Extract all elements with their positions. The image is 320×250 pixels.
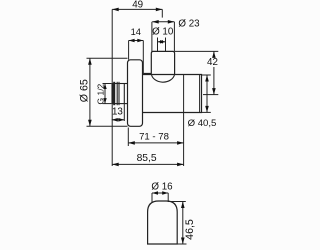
wire dim 13 line xyxy=(112,104,125,122)
svg-text:42: 42 xyxy=(207,57,218,68)
body valve xyxy=(143,75,202,113)
svg-text:13: 13 xyxy=(112,107,123,118)
wire dim 49 line xyxy=(112,8,162,12)
svg-text:Ø 16: Ø 16 xyxy=(151,181,173,192)
wire dim O65 line xyxy=(87,58,128,126)
svg-text:49: 49 xyxy=(132,0,143,10)
wire ext right 49 xyxy=(161,9,163,17)
svg-text:Ø 23: Ø 23 xyxy=(178,19,200,30)
head riser xyxy=(151,51,174,82)
wire body joint xyxy=(183,75,185,167)
wire dim 46.5 xyxy=(168,202,187,245)
wire dim 42 xyxy=(175,51,219,94)
wire dim O16 line xyxy=(152,191,168,202)
svg-text:46,5: 46,5 xyxy=(184,219,196,240)
svg-text:Ø 65: Ø 65 xyxy=(79,79,91,102)
svg-text:14: 14 xyxy=(131,27,141,37)
flange rosette xyxy=(128,60,143,127)
svg-text:G 1/2: G 1/2 xyxy=(95,83,105,104)
svg-text:71 - 78: 71 - 78 xyxy=(139,131,169,142)
wire dim O40.5 xyxy=(202,75,211,112)
wire dim 85.5 line xyxy=(112,163,183,167)
wire dim O10 line xyxy=(158,38,166,52)
wire dim O23 line xyxy=(152,20,175,51)
wire dim 71-78 line xyxy=(128,128,183,147)
wire dim G12 line xyxy=(103,84,112,104)
wire ext left 49/85.5 xyxy=(111,9,113,166)
svg-text:85,5: 85,5 xyxy=(137,153,157,164)
stub G1/2 thread xyxy=(112,82,128,105)
svg-text:Ø 10: Ø 10 xyxy=(152,27,174,38)
collar ledge xyxy=(144,73,151,74)
svg-text:Ø 40,5: Ø 40,5 xyxy=(188,118,217,129)
wire dim 14 line xyxy=(129,39,144,75)
knob detail part xyxy=(148,201,178,244)
